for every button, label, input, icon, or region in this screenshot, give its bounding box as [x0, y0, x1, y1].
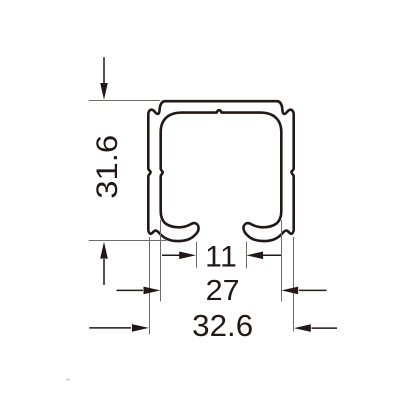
dim 27 left arrow: [117, 287, 161, 295]
dim 31.6 bottom arrow: [100, 242, 108, 285]
dim 11 right arrow: [246, 252, 281, 260]
extension line 27 left: [160, 220, 162, 302]
extension line bottom (31.6): [89, 240, 167, 242]
dim 27 right arrow: [281, 287, 326, 295]
extension line 11 right: [246, 242, 248, 269]
rail profile outline: [148, 101, 293, 241]
dim 32.6 right arrow: [294, 324, 337, 332]
dim 11 left arrow: [162, 252, 196, 260]
tiny speck artifact: [66, 379, 70, 381]
dim 31.6 top arrow: [100, 57, 108, 100]
svg-text:32.6: 32.6: [192, 309, 253, 343]
extension line 27 right: [281, 220, 283, 302]
svg-text:31.6: 31.6: [91, 135, 124, 199]
svg-text:27: 27: [206, 275, 240, 307]
extension line 32.6 left: [149, 237, 151, 335]
extension line 11 left: [196, 242, 198, 268]
extension line 32.6 right: [293, 237, 295, 332]
svg-text:11: 11: [205, 240, 237, 273]
dim 32.6 left arrow: [89, 324, 149, 332]
extension line top (31.6): [89, 100, 161, 102]
